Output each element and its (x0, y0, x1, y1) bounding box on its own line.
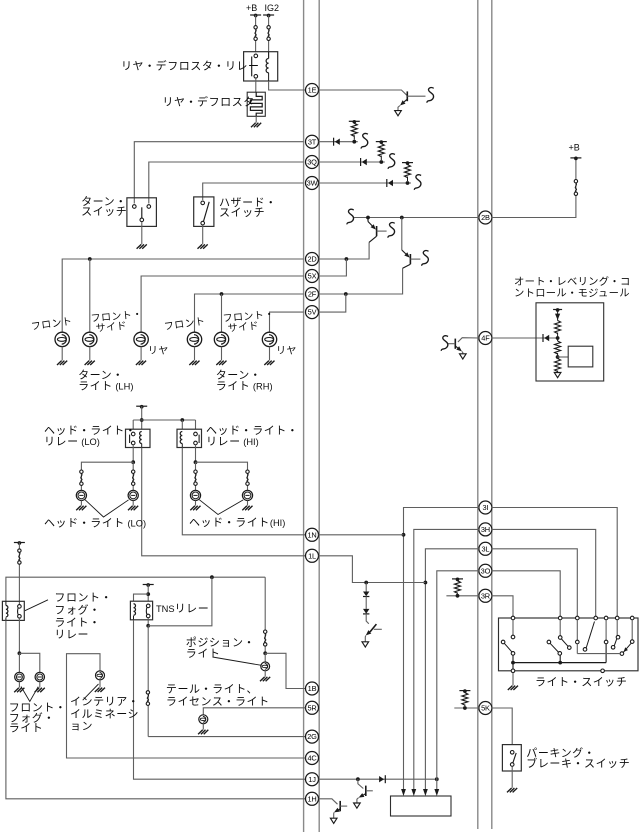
transistor Q3 (401, 218, 403, 251)
wire 3T right (319, 141, 358, 143)
node 5K (479, 702, 492, 715)
relay K2 headlight relay LO box (126, 429, 151, 447)
wire feed to relays (141, 406, 143, 429)
node 3T (306, 135, 319, 148)
wire branch to right fog lamp (19, 653, 39, 672)
junction dot 3T pull-up (352, 140, 356, 144)
light switch pole E contact (616, 620, 618, 636)
wire down to left HI lamp (195, 462, 197, 490)
ground under headlight LO right (128, 506, 138, 510)
light switch aux wire (577, 653, 620, 655)
light switch aux stub (576, 644, 578, 654)
svg-text:ライセンス・ライト: ライセンス・ライト (166, 695, 270, 708)
ground under headlight LO left (76, 506, 86, 510)
wire turn lamp rear LH to ground (140, 347, 142, 361)
transistor Q4 (454, 339, 456, 349)
leader fog relay label (25, 600, 48, 611)
wire K2 coil to node 1L (142, 448, 306, 556)
lamp position light (264, 653, 266, 662)
node 1E (306, 84, 319, 97)
wire TNS output to rail 577 (148, 577, 212, 626)
wire 5K to parking brake switch (492, 708, 512, 745)
heater R1 element (250, 92, 262, 116)
junction dot 1J to lamp-fail box (435, 777, 439, 781)
light switch pin 1 (511, 616, 515, 620)
svg-text:スイッチ: スイッチ (81, 205, 127, 218)
svg-text:インテリア・: インテリア・ (70, 696, 139, 708)
connector in 1J wire (384, 775, 386, 783)
svg-text:3R: 3R (481, 591, 490, 600)
light switch pin 5 (604, 616, 608, 620)
ground arrow under Q5 (354, 803, 361, 808)
light switch pole D (605, 620, 607, 640)
relay K1 rear defroster relay box (244, 52, 278, 81)
wire +B to relay (255, 15, 257, 52)
light switch pin 7 (630, 616, 634, 620)
connector in +B wire (254, 26, 257, 29)
wire 2F right to transistor Q3 emitter (319, 268, 403, 294)
power tap IG2 (263, 14, 274, 16)
junction dot HI lamp branch (194, 460, 198, 464)
continuation S at 3W (414, 175, 421, 190)
relay K5 TNS relay box (130, 601, 152, 620)
switch S4 parking brake switch box (502, 745, 521, 771)
svg-text:リレー: リレー (54, 629, 89, 641)
wire 1L right path (319, 556, 426, 583)
resistor pull-up 3T (353, 135, 355, 140)
transistor Q1 (406, 91, 408, 101)
lamp front fog left (15, 672, 24, 681)
node 1N (306, 528, 319, 541)
junction dot 1N join (402, 533, 406, 537)
svg-text:2B: 2B (481, 213, 490, 222)
arrow 3L into block (423, 789, 428, 796)
wire 5R to tail lamp (203, 708, 305, 715)
wire fog right ground (39, 682, 41, 688)
power tap fog feed (14, 542, 25, 544)
junction dot module node B (557, 353, 559, 357)
arrow 3I into block (401, 789, 406, 796)
wire 3Q right (319, 161, 385, 163)
wire down to right LO lamp (132, 462, 134, 490)
wire right bus line B (491, 0, 493, 829)
ground arrow under Q1 (395, 111, 402, 116)
svg-text:ブレーキ・スイッチ: ブレーキ・スイッチ (526, 756, 630, 770)
wire stub HI switch top (195, 420, 197, 429)
ground under turn lamp front LH (57, 361, 67, 365)
wire 3I left drop (404, 508, 480, 792)
wire 3T to turn switch (134, 142, 303, 204)
wire to 2G circle (148, 736, 305, 738)
wire 3L left drop (425, 549, 479, 791)
junction dot 2F-5V tap (344, 292, 348, 296)
leader position light label (213, 657, 261, 665)
wire rail to position light (264, 577, 266, 653)
connector in TNS output wire (146, 691, 149, 694)
wire module node B to ecu block (558, 356, 569, 358)
relay K5 switch contact (146, 604, 150, 608)
lamp turn lamp front RH (187, 332, 201, 346)
node 3L (479, 542, 492, 555)
wire turn switch to ground (141, 222, 143, 244)
continuation S feeding 2B rail (347, 209, 354, 224)
junction dot Q5 base (356, 777, 360, 781)
svg-text:1E: 1E (308, 86, 317, 95)
node 3W (306, 177, 319, 190)
svg-text:ライト: ライト (9, 723, 44, 735)
svg-text:4C: 4C (307, 754, 317, 763)
ground under light switch (508, 686, 518, 690)
svg-text:3H: 3H (481, 525, 490, 534)
junction dot module node A (557, 333, 559, 339)
node 4F (479, 332, 492, 345)
ground arrow under Q6 (330, 818, 337, 823)
continuation S at Q2 collector (388, 223, 395, 238)
wire turn lamp front LH to ground (61, 347, 63, 361)
light switch bottom pin A (511, 669, 515, 673)
wire parking brake to ground (511, 767, 513, 788)
lamp interior illumination (96, 671, 105, 680)
svg-text:TNSリレー: TNSリレー (156, 603, 209, 615)
ground under interior lamp (95, 688, 105, 692)
light switch pole B (559, 620, 561, 636)
junction dot TNS output (146, 624, 150, 628)
light switch pole C contact (576, 620, 578, 640)
switch S1 contacts (133, 205, 137, 209)
svg-text:5K: 5K (481, 704, 490, 713)
wire position light ground (264, 671, 266, 677)
lamp headlight LO left (76, 490, 86, 500)
relay K3 headlight relay HI box (177, 429, 202, 447)
svg-text:リヤ: リヤ (276, 346, 297, 357)
ground under turn lamp rear RH (264, 361, 274, 365)
wire stub HI coil top (181, 420, 183, 429)
light switch pin 3 (576, 616, 580, 620)
wire fog feed to relay switch (18, 543, 20, 605)
svg-text:リヤ・デフロスタ: リヤ・デフロスタ (162, 94, 254, 108)
node 3R (479, 589, 492, 602)
svg-text:ライト (LH): ライト (LH) (78, 381, 133, 393)
junction dot Q3 base (400, 216, 404, 220)
arrow 3H into block (411, 789, 416, 796)
diode D1 (365, 583, 367, 592)
wire turn lamp front-side LH to ground (89, 347, 91, 361)
resistor module middle (557, 338, 559, 341)
ground arrow in module (557, 371, 559, 373)
svg-text:フォグ・: フォグ・ (54, 602, 100, 616)
wire defroster to ground (255, 116, 257, 122)
light switch pole F lever with arrow (623, 643, 631, 652)
switch S2 contacts (201, 201, 205, 205)
junction dot 1L join (424, 581, 428, 585)
ground under headlight HI left (190, 506, 200, 510)
node 5V (306, 306, 319, 319)
wire 1H right to transistor Q6 (319, 799, 338, 804)
connector in right LO lamp wire (132, 470, 135, 473)
lamp turn lamp rear RH (262, 332, 276, 346)
power tap in module (553, 309, 562, 311)
connector in position light wire (264, 630, 267, 633)
wire K3 coil to node 1N (182, 448, 305, 535)
junction dot fog lamp branch (18, 651, 22, 655)
svg-text:1N: 1N (307, 530, 316, 539)
relay K4 switch contact (18, 605, 22, 609)
svg-text:ライト・スイッチ: ライト・スイッチ (535, 675, 627, 688)
junction dot 3W pull-up (406, 181, 410, 185)
wire headlight HI right ground (247, 501, 249, 506)
light switch pole F (631, 620, 633, 640)
wire 3H right to light switch (492, 529, 596, 616)
wire 3H left drop (414, 529, 479, 791)
node 3O (479, 564, 492, 577)
wire 2D right to transistor Q2 emitter (319, 242, 370, 259)
lamp headlight HI left (190, 490, 200, 500)
switch S1 turn switch box (127, 198, 156, 227)
svg-text:テール・ライト、: テール・ライト、 (166, 684, 258, 696)
ground under turn lamp front-side LH (85, 361, 95, 365)
relay K1 coil (268, 52, 270, 59)
ground under turn lamp front RH (189, 361, 199, 365)
wire left bus line B (318, 0, 320, 832)
arrow 3O into block (434, 789, 439, 796)
arrow down in module chain (557, 310, 559, 321)
resistor module upper (555, 321, 561, 334)
connector in left HI lamp wire (194, 470, 197, 473)
wire branch to left LO lamp (81, 462, 133, 490)
svg-text:イルミネーシ: イルミネーシ (70, 707, 139, 720)
svg-text:2D: 2D (307, 255, 316, 264)
ground under fog left (14, 688, 24, 692)
lamp turn lamp rear LH (134, 332, 148, 346)
wire 5V tap (319, 294, 346, 312)
power tap above 3R resistor (452, 578, 463, 580)
wire TNS output down to node 2G (147, 626, 149, 737)
relay K4 front fog relay box (2, 601, 24, 620)
junction dot 5K pull-up (463, 706, 467, 710)
wire 2F to front turn lamps RH (195, 294, 304, 332)
light switch pole C lever (586, 622, 594, 648)
lamp headlight LO right (128, 490, 138, 500)
node 2B (479, 211, 492, 224)
svg-text:ントロール・モジュール: ントロール・モジュール (514, 288, 630, 299)
wire 5V to rear turn lamp RH (270, 312, 304, 332)
wire tail lamp ground (202, 724, 204, 730)
relay K3 switch contact (194, 432, 198, 436)
svg-text:ョン: ョン (70, 721, 93, 733)
wire 4C to interior lamp (67, 654, 306, 758)
light switch pin 4 (594, 616, 598, 620)
ground under tail lamp (198, 730, 208, 734)
svg-text:3Q: 3Q (307, 158, 317, 167)
continuation S at Q3 collector (422, 251, 429, 266)
ground arrow under Q4 (460, 354, 467, 359)
wire 3R left (446, 595, 479, 597)
lamp tail and license light (199, 715, 208, 724)
svg-text:5R: 5R (307, 703, 316, 712)
connector in right HI lamp wire (246, 470, 249, 473)
relay K2 coil (140, 432, 142, 444)
node 1J (306, 773, 319, 786)
wire headlight LO left ground (80, 501, 82, 506)
junction dot LO lamp branch (131, 460, 135, 464)
resistor pull-up 5K (464, 705, 466, 707)
junction dot position light (263, 651, 267, 655)
wire relay switch to defroster (255, 78, 257, 92)
wire 3L right to light switch (492, 549, 578, 616)
junction dot headlight feed (140, 418, 144, 422)
wire down to left fog lamp (18, 653, 20, 672)
junction dot HI coil top (180, 418, 184, 422)
node 3H (479, 523, 492, 536)
lamp turn lamp front LH (55, 332, 69, 346)
power tap above 3Q resistor (376, 141, 387, 143)
relay K4 coil (5, 601, 7, 605)
leader headlight LO label (85, 500, 129, 517)
continuation S at Q4 collector (441, 336, 448, 351)
lamp front fog right (35, 672, 44, 681)
resistor pull-up 3W (407, 177, 409, 182)
svg-text:2F: 2F (308, 290, 317, 299)
junction dot 2F lamp branch (220, 292, 224, 296)
ecu block in module (568, 346, 593, 367)
svg-text:5X: 5X (308, 272, 317, 281)
connector in fog feed (18, 549, 21, 552)
wire 3O left drop (437, 571, 479, 791)
wire K2 switch to lamps LO (132, 445, 134, 462)
wire K5 switch output (147, 618, 149, 626)
resistor pull-up 3Q (380, 156, 382, 161)
wire 1J right (319, 778, 437, 780)
ground under parking brake switch (507, 788, 517, 792)
connector in IG2 wire (267, 26, 270, 29)
svg-text:5V: 5V (308, 308, 317, 317)
wire 4F to transistor Q4 base (458, 338, 479, 342)
wire IG2 to relay coil (268, 15, 270, 59)
node 5R (306, 701, 319, 714)
continuation S at 3T (361, 133, 368, 148)
node 2D (306, 253, 319, 266)
svg-text:オート・レベリング・コ: オート・レベリング・コ (514, 275, 631, 288)
node 1B (306, 682, 319, 695)
switch S3 light switch box (499, 618, 639, 671)
power tap headlight feed (136, 405, 147, 407)
leader front fog label (21, 687, 38, 702)
ground arrow under Q7 (362, 642, 369, 647)
wire 4F to module (492, 337, 556, 339)
wire 2D to front turn lamps LH (62, 259, 303, 332)
module U1 auto leveling control box (536, 303, 604, 381)
wire 5K left stub (454, 707, 479, 709)
wire 3Q to turn switch (149, 162, 304, 204)
svg-text:ライト・: ライト・ (54, 617, 100, 629)
svg-text:ヘッド・ライト・: ヘッド・ライト・ (206, 425, 298, 437)
transistor Q2 (367, 218, 369, 222)
junction dot 3Q pull-up (379, 160, 383, 164)
wire K4 switch to fog lamps (18, 618, 20, 653)
svg-text:ヘッド・ライト(HI): ヘッド・ライト(HI) (189, 517, 285, 529)
wire 2B to +B (492, 159, 576, 218)
junction dot TNS coil branch (146, 592, 150, 596)
power tap +B (250, 14, 261, 16)
connector in left LO lamp wire (80, 470, 83, 473)
svg-text:3L: 3L (481, 544, 489, 553)
transistor Q6 (339, 801, 341, 811)
light switch pole A (512, 620, 514, 635)
wire TNS feed (147, 585, 149, 602)
switch S2 hazard switch box (194, 197, 214, 227)
wire headlight LO right ground (132, 501, 134, 506)
power tap above 3W resistor (402, 162, 413, 164)
switch S4 contacts (510, 751, 514, 755)
leader interior label (83, 684, 99, 700)
node 3I (479, 501, 492, 514)
ground under defroster (251, 123, 261, 127)
connector block box bottom (391, 796, 452, 816)
svg-text:リヤ: リヤ (148, 346, 169, 357)
light switch internal bus (513, 662, 606, 664)
ground under turn lamp rear LH (136, 361, 146, 365)
diode D2 (365, 597, 367, 609)
power tap TNS feed (143, 584, 154, 586)
junction dot Q2 base (366, 216, 370, 220)
wire 3I right to light switch (492, 508, 617, 617)
light switch pin 6 (615, 616, 619, 620)
wire 5X tap (319, 259, 347, 276)
svg-text:1J: 1J (308, 775, 316, 784)
wire stub LO switch top (132, 420, 134, 429)
relay K2 switch contact (131, 432, 135, 436)
wire turn lamp front-side RH to ground (221, 347, 223, 361)
node 4C (306, 752, 319, 765)
svg-text:3T: 3T (308, 137, 317, 146)
svg-text:リヤ・デフロスタ・リレー: リヤ・デフロスタ・リレー (121, 59, 260, 73)
ground under turn switch (137, 244, 147, 248)
power tap above 5K resistor (459, 690, 470, 692)
wire left bus line A (303, 0, 305, 832)
wire position light to node 1B (265, 653, 305, 688)
wire to TNS coil top (134, 594, 149, 601)
wire hazard switch to ground (202, 225, 204, 244)
junction dot 2D-5X tap (345, 257, 349, 261)
svg-text:+B: +B (246, 3, 257, 13)
svg-text:2G: 2G (307, 732, 317, 741)
junction dot 2D lamp branch (88, 257, 92, 261)
leader headlight HI label (199, 500, 243, 515)
wire TNS rail 577 (6, 577, 265, 601)
wire 1N right (319, 534, 404, 536)
node 3Q (306, 156, 319, 169)
wire S to 2B (354, 217, 479, 219)
node 2G (306, 730, 319, 743)
wire fog left ground (18, 682, 20, 688)
wire relay top rail (133, 419, 195, 421)
resistor pull-up 3R (457, 593, 459, 594)
junction dot pole A on bus (511, 661, 515, 665)
wire K3 switch to lamps HI (195, 445, 197, 462)
continuation S at 3Q (388, 154, 395, 169)
wire K5 coil to node 1J (134, 620, 306, 779)
ground under turn lamp front-side RH (216, 361, 226, 365)
connector in 3T wire (333, 138, 335, 146)
wire right bus line A (477, 0, 479, 829)
junction dot pole B on bus (558, 661, 562, 665)
svg-text:IG2: IG2 (265, 3, 280, 13)
wire branch to front side lamp RH (221, 294, 223, 332)
power tap above 3T resistor (349, 120, 360, 122)
relay K1 switch contact (254, 54, 258, 58)
svg-text:4F: 4F (481, 334, 490, 343)
svg-text:リレー (HI): リレー (HI) (206, 436, 259, 448)
